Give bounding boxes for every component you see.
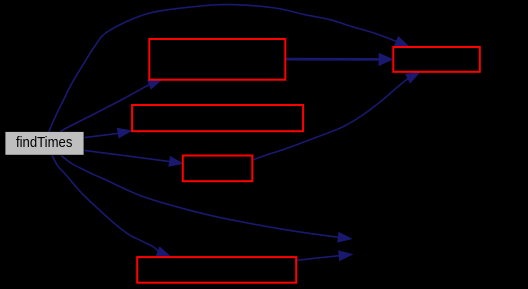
svg-text:findTimes: findTimes — [16, 134, 73, 151]
edge findTimes->rightbox (top curve) — [49, 5, 410, 132]
node rightbox (red, truncated) — [393, 47, 480, 72]
edge box3->rightbox — [252, 72, 420, 160]
edge findTimes->bottombox — [52, 156, 172, 257]
node findTimes (current, grey) — [5, 132, 83, 155]
edge box1->rightbox (double edge, thick) — [286, 53, 394, 66]
node box1 (red, two-line, truncated) — [149, 39, 285, 80]
edge findTimes->box3 — [85, 150, 184, 166]
edge findTimes->hidden node — [62, 156, 353, 243]
node box2 (red, truncated) — [132, 105, 303, 131]
node box3 (red, truncated) — [183, 156, 253, 182]
edge findTimes->box2 — [85, 128, 133, 139]
edge findTimes->box1 — [61, 79, 163, 131]
edge bottombox->hidden node — [297, 250, 354, 261]
node bottombox (red, truncated) — [137, 257, 296, 283]
